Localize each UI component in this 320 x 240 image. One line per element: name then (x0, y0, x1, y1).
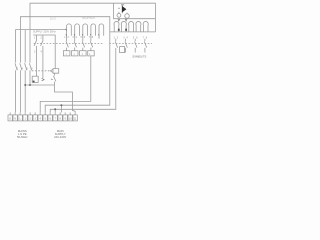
svg-text:1: 1 (24, 117, 26, 120)
connector X2 pin ticks (66, 34, 99, 35)
middle switch S2 contact pole 4 (90, 39, 92, 51)
svg-text:7: 7 (143, 36, 145, 39)
svg-text:10: 10 (69, 117, 72, 120)
right switch S3 dashed gang line (109, 42, 152, 44)
connector X3 socket 1 (114, 21, 119, 31)
junction dot pole4 bridge (29, 84, 31, 86)
indicator lamp box H1 (114, 3, 156, 18)
svg-text:8: 8 (59, 117, 61, 120)
svg-text:8: 8 (31, 66, 33, 70)
middle switch S2 terminal labels (64, 36, 94, 39)
svg-text:6: 6 (136, 36, 138, 39)
lamp spark dot (118, 8, 119, 9)
wire label B (82, 17, 96, 20)
feed wire label text (33, 30, 56, 33)
connector X3 plugged pin dot 1 (118, 29, 120, 31)
svg-text:7: 7 (54, 117, 56, 120)
svg-text:SUPPLY 230V 50Hz: SUPPLY 230V 50Hz (33, 30, 56, 33)
right switch S3 terminal labels (114, 36, 148, 39)
middle switch base box numbers (66, 53, 92, 56)
svg-text:8: 8 (92, 36, 94, 39)
right switch S3 label text (133, 55, 147, 59)
junction dot pole3 bridge (24, 84, 26, 86)
middle switch S2 base box 3 (80, 51, 87, 56)
wire pole3 bottom to terminal 4 (24, 70, 26, 112)
mains text label left (17, 129, 28, 139)
svg-text:11: 11 (74, 117, 77, 120)
middle switch S2 base box 1 (63, 51, 70, 56)
plug arrow on S4 pole2 wire (42, 78, 45, 81)
lamp lead arrow 1 (118, 19, 120, 21)
svg-text:9: 9 (64, 117, 66, 120)
svg-text:E: E (9, 117, 11, 120)
connector X2 loop 5 (99, 24, 104, 39)
right switch S3 contact pole 1 (115, 39, 117, 53)
svg-text:2: 2 (41, 36, 43, 39)
svg-text:2: 2 (29, 117, 31, 120)
lamp circle left (117, 12, 121, 17)
wire label A (50, 19, 56, 21)
wire pole1 bottom to terminal 2 (15, 70, 17, 112)
wire: right switch pole1 down, left along bus to terminal 9 (50, 53, 116, 113)
lamp stem (121, 5, 124, 13)
svg-text:N: N (14, 117, 16, 120)
wire: middle switch output down, left along bus to terminal 7 (40, 56, 91, 112)
right connector X3 baseline (110, 31, 156, 33)
svg-text:1: 1 (114, 36, 116, 39)
wire pole4 bottom stub (29, 70, 31, 85)
svg-text:220-240V: 220-240V (54, 135, 66, 139)
middle switch S2 dashed gang line (34, 42, 103, 44)
wire pole2 bottom to terminal 3 (19, 70, 21, 112)
connector X3 socket 2 (121, 21, 126, 31)
middle switch S2 contact pole 3 (82, 39, 84, 51)
middle switch S2 contact pole 2 (74, 39, 76, 51)
junction dot bus lower (54, 108, 56, 110)
connector X2 loop 1 (67, 24, 72, 39)
svg-text:6: 6 (84, 36, 86, 39)
right switch S3 contact pole 3 (135, 39, 137, 53)
connector X3 socket 4 (136, 21, 141, 31)
svg-text:1: 1 (34, 36, 36, 39)
aux switch S4 contact pole 1 (34, 35, 37, 76)
right switch S3 contact pole 2 (125, 39, 127, 53)
aux contact under handle (53, 73, 56, 85)
svg-text:6: 6 (26, 66, 28, 70)
connector X2 loop 4 (91, 24, 96, 39)
svg-text:2x1.5: 2x1.5 (50, 19, 56, 21)
junction dot bus upper (60, 104, 62, 106)
supply text label right (54, 129, 66, 139)
svg-text:L: L (19, 117, 21, 120)
terminal strip X1 pin numbers (9, 117, 77, 120)
wire aux bridge to poles 3+4 (25, 84, 54, 86)
terminal strip X1 squares (8, 115, 77, 121)
svg-text:7: 7 (89, 36, 91, 39)
svg-text:3: 3 (34, 117, 36, 120)
connector X2 loop 3 (83, 24, 88, 39)
svg-text:8: 8 (146, 36, 148, 39)
svg-text:5: 5 (133, 36, 135, 39)
main switch terminal labels 2 4 6 8 (17, 66, 33, 70)
svg-text:5: 5 (44, 117, 46, 120)
svg-text:HAUPTSCH.: HAUPTSCH. (82, 17, 96, 20)
lamp dark flag (122, 6, 127, 13)
plug pin dot in socket (33, 81, 35, 83)
right switch S3 element box (120, 47, 125, 53)
main switch Q1 mechanical dashed link (32, 70, 50, 72)
connector X2 loop 2 (75, 24, 80, 39)
lamp lead arrow 2 (125, 19, 127, 21)
connector X3 socket 5 (143, 21, 148, 31)
svg-text:2: 2 (17, 66, 19, 70)
svg-text:5: 5 (81, 36, 83, 39)
wire aux contact down to terminal 14 (55, 85, 76, 112)
lamp circle right (125, 13, 130, 19)
svg-text:6: 6 (49, 117, 51, 120)
wire stub bus to terminal 10 (54, 109, 56, 112)
wire L1 feed: pole1 riser to middle connector (16, 30, 67, 63)
wire stub bus to terminal 11 (60, 105, 62, 112)
aux switch S4 terminal labels (34, 36, 43, 53)
middle switch S2 base box 2 (72, 51, 79, 56)
svg-text:4: 4 (21, 66, 23, 70)
aux switch S4 contact pole 2 (41, 35, 44, 78)
svg-text:4: 4 (126, 36, 128, 39)
aux contact tick (51, 78, 53, 81)
connector X3 plugged pin dot 2 (125, 29, 127, 31)
wire pole4 riser: top rail to far right, down to right connector baseline (30, 3, 155, 62)
aux switch S4 frame top and right side down to handle (33, 35, 55, 69)
middle switch S2 contact pole 1 (66, 39, 68, 51)
svg-text:5XMB1/7S: 5XMB1/7S (133, 55, 147, 59)
plug socket on S4 pole1 wire (32, 76, 38, 82)
right switch S3 contact pole 4 (144, 39, 146, 53)
svg-text:4: 4 (76, 36, 78, 39)
svg-text:3: 3 (34, 51, 36, 54)
actuator handle of main switch (50, 69, 58, 74)
svg-text:3: 3 (123, 36, 125, 39)
svg-text:1: 1 (64, 36, 66, 39)
svg-text:4: 4 (41, 51, 43, 54)
svg-text:4: 4 (39, 117, 41, 120)
middle switch S2 base box 4 (88, 51, 95, 56)
svg-text:2: 2 (68, 36, 70, 39)
svg-text:2: 2 (117, 36, 119, 39)
svg-text:3: 3 (72, 36, 74, 39)
svg-text:50-60Hz: 50-60Hz (17, 135, 28, 139)
main switch Q1 pole3 top stub (24, 30, 26, 63)
connector X3 socket 3 (129, 21, 134, 31)
main switch Q1 contact blades (15, 63, 32, 70)
terminal strip X1 ticks (10, 112, 75, 115)
connection tick middle connector pin1 (65, 29, 68, 31)
wire L2 feed: pole2 riser, across top, down right side to bottom bus, left to terminal 8 (20, 17, 109, 113)
